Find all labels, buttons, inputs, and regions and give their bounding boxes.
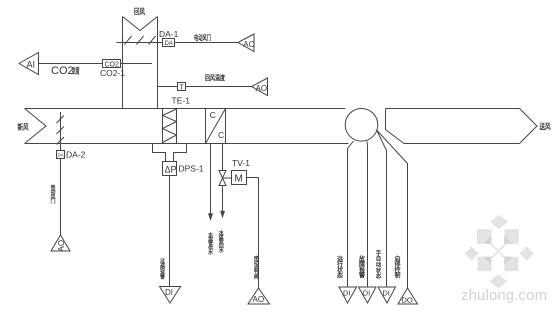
svg-text:DI: DI: [165, 288, 173, 297]
svg-text:DA-2: DA-2: [66, 150, 86, 160]
svg-text:态: 态: [376, 272, 382, 280]
svg-text:态: 态: [337, 272, 343, 280]
svg-text:AO: AO: [253, 295, 265, 304]
svg-text:DA-1: DA-1: [159, 29, 179, 39]
svg-text:CO2-1: CO2-1: [100, 68, 125, 78]
svg-text:警: 警: [358, 272, 365, 280]
svg-text:DI: DI: [363, 289, 371, 298]
svg-text:水: 水: [218, 247, 225, 254]
svg-text:回风温度: 回风温度: [205, 73, 226, 82]
svg-text:TV-1: TV-1: [232, 158, 250, 168]
svg-text:送风: 送风: [539, 121, 551, 131]
svg-text:C: C: [218, 130, 224, 140]
svg-text:AO: AO: [243, 40, 255, 49]
svg-text:自: 自: [376, 255, 382, 263]
svg-text:制: 制: [394, 272, 400, 280]
svg-text:AO: AO: [256, 84, 268, 93]
svg-text:DI: DI: [382, 289, 390, 298]
svg-text:C: C: [210, 110, 216, 120]
svg-text:M: M: [235, 174, 243, 185]
svg-text:TE-1: TE-1: [172, 96, 191, 106]
svg-text:门: 门: [50, 198, 55, 205]
svg-text:zhulong.com: zhulong.com: [461, 288, 547, 304]
svg-text:ΔP: ΔP: [165, 165, 177, 175]
svg-text:DO: DO: [402, 296, 413, 305]
svg-text:电动风门: 电动风门: [194, 33, 211, 42]
svg-text:浓度: 浓度: [72, 66, 80, 76]
svg-text:DPS-1: DPS-1: [179, 164, 204, 174]
svg-text:警: 警: [160, 273, 165, 280]
svg-text:DA: DA: [165, 41, 173, 47]
svg-text:水: 水: [207, 249, 214, 256]
svg-text:新风: 新风: [18, 122, 29, 132]
svg-text:CO2: CO2: [51, 65, 74, 77]
svg-text:DA: DA: [58, 153, 64, 158]
svg-text:回风: 回风: [134, 7, 145, 16]
svg-text:阀: 阀: [254, 274, 259, 281]
svg-text:DI: DI: [343, 289, 351, 298]
svg-text:T: T: [180, 85, 185, 92]
svg-text:手: 手: [376, 249, 382, 257]
svg-text:状: 状: [376, 266, 382, 274]
svg-text:AI: AI: [27, 60, 36, 70]
svg-text:动: 动: [376, 261, 382, 269]
